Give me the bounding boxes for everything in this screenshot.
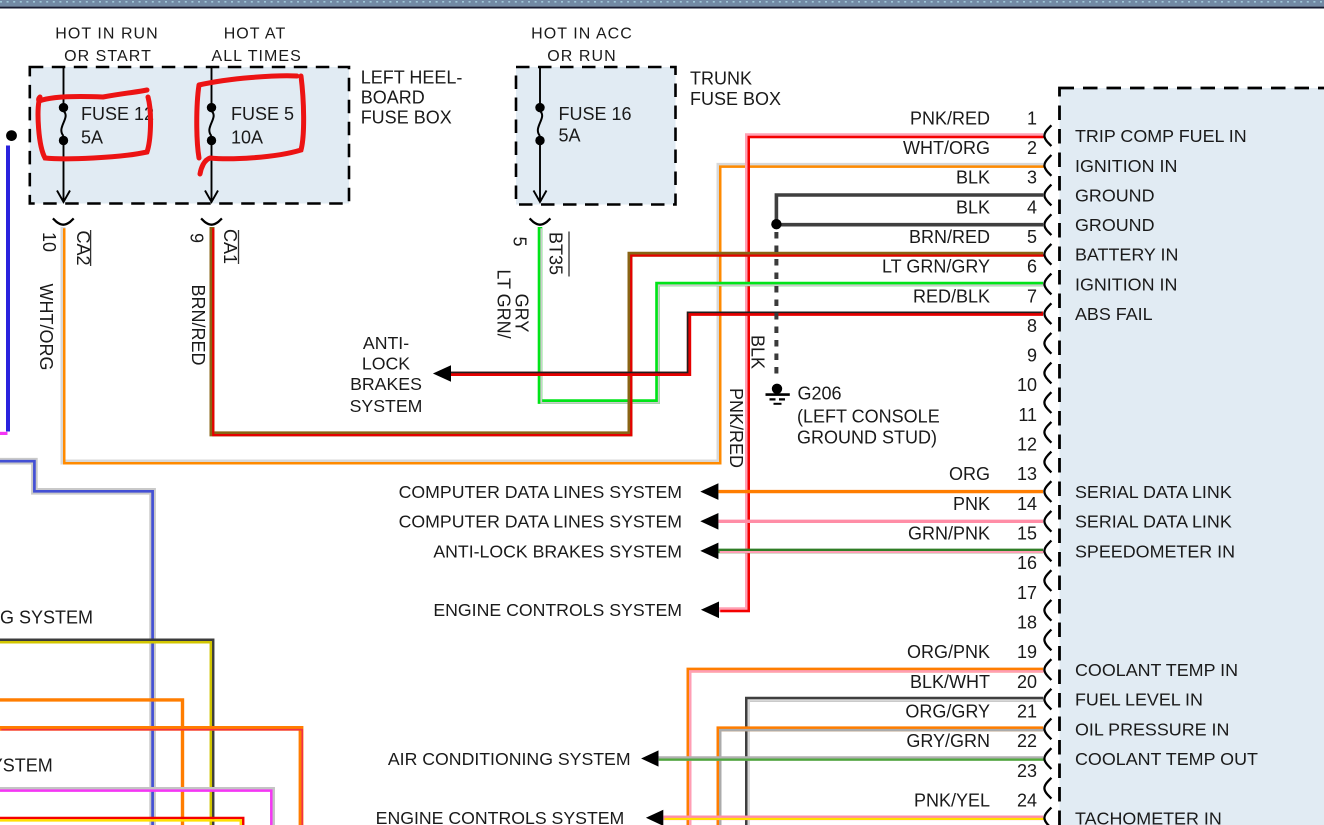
connector pin 16 row [1017,553,1051,591]
svg-text:BRN/RED: BRN/RED [909,227,990,247]
svg-text:17: 17 [1017,583,1037,603]
svg-text:COOLANT TEMP IN: COOLANT TEMP IN [1075,660,1238,680]
svg-text:9: 9 [186,233,206,243]
wire ORG/PNK to pin 19 [689,670,1044,825]
svg-text:LOCK: LOCK [362,354,410,374]
svg-text:WHT/ORG: WHT/ORG [36,284,56,371]
svg-text:23: 23 [1017,761,1037,781]
instrument cluster connector box (dashed, lt-blue) [1060,88,1324,825]
svg-text:BLK: BLK [956,197,990,217]
svg-text:PNK: PNK [953,494,990,514]
wire label WHT/ORG (rotated) [36,284,56,371]
wire RED/YEL (bottom left) [0,818,243,825]
svg-text:PNK/RED: PNK/RED [910,108,990,128]
svg-text:GRY: GRY [512,294,532,333]
svg-text:ORG/PNK: ORG/PNK [907,642,990,662]
wire BLK/WHT to pin 20 [748,699,1045,825]
svg-text:8: 8 [1027,316,1037,336]
arrow to COMPUTER DATA LINES SYSTEM (2) [700,513,718,530]
connector bracket under FUSE 16 [530,218,551,224]
svg-text:BRN/RED: BRN/RED [188,284,208,365]
svg-text:13: 13 [1017,464,1037,484]
connector pin 12 row [1017,435,1051,473]
svg-text:SYSTEM: SYSTEM [0,755,53,775]
svg-text:CA1: CA1 [220,229,240,264]
svg-text:22: 22 [1017,731,1037,751]
svg-text:FUSE BOX: FUSE BOX [361,108,452,128]
connector BT35 (rotated, underlined) [546,232,570,277]
wire GRN/PNK to pin 15 [718,551,1044,552]
label FUSE 5 10A [231,104,294,148]
svg-text:BT35: BT35 [546,232,566,275]
svg-text:BRAKES: BRAKES [350,374,422,394]
svg-text:HOT AT: HOT AT [224,26,287,43]
connector pin 21 row [905,702,1229,740]
wire ORG (bottom left 1) [0,700,183,825]
wire PNK/RED from ENGINE CONTROLS SYSTEM to pin 1 [719,136,1044,611]
svg-text:9: 9 [1027,346,1037,366]
svg-text:WHT/ORG: WHT/ORG [903,138,990,158]
svg-text:14: 14 [1017,494,1037,514]
svg-text:COMPUTER DATA LINES SYSTEM: COMPUTER DATA LINES SYSTEM [399,482,682,502]
left heel-board fuse box (dashed, lt-blue) [30,67,349,204]
svg-text:HOT IN RUN: HOT IN RUN [55,26,159,43]
svg-text:20: 20 [1017,672,1037,692]
svg-text:PNK/YEL: PNK/YEL [914,791,990,811]
red annotation circle around FUSE 5 [197,76,304,174]
label FUSE 16 5A [559,104,632,146]
svg-text:ENGINE CONTROLS SYSTEM: ENGINE CONTROLS SYSTEM [433,600,682,620]
label G SYSTEM (truncated) [0,608,93,628]
connector pin 23 row [1017,761,1051,799]
connector pin 2 row [903,138,1177,176]
svg-text:BLK/WHT: BLK/WHT [910,672,990,692]
label ENGINE CONTROLS SYSTEM (bottom) [376,808,625,825]
svg-text:COMPUTER DATA LINES SYSTEM: COMPUTER DATA LINES SYSTEM [399,512,682,532]
wire BLK dashed to ground G206 [774,232,778,374]
fuse FUSE 16 5A symbol [534,67,547,202]
svg-text:11: 11 [1018,405,1037,425]
svg-text:3: 3 [1027,168,1037,188]
connector pin 13 row [949,464,1232,502]
pin number 9 (rotated) [186,233,206,243]
connector CA2 (rotated, underlined) [73,230,93,266]
svg-text:BLK: BLK [956,168,990,188]
svg-text:AIR CONDITIONING SYSTEM: AIR CONDITIONING SYSTEM [388,749,631,769]
label ENGINE CONTROLS SYSTEM (upper) [433,600,682,620]
label G206 (LEFT CONSOLE GROUND STUD) [797,383,940,447]
connector pin 7 row [913,286,1153,324]
svg-text:ALL TIMES: ALL TIMES [212,48,302,65]
wire label BRN/RED (rotated) [188,284,208,365]
svg-text:5A: 5A [81,128,103,148]
svg-text:12: 12 [1017,435,1037,455]
svg-text:5: 5 [509,236,529,246]
svg-text:4: 4 [1027,197,1037,217]
connector pin 20 row [910,672,1203,710]
wire RED/BLK from ANTI-LOCK BRAKES SYSTEM to pin 7 [448,312,1043,374]
connector pin 24 row [914,791,1222,825]
wire BLK pin 3 to junction [776,195,1043,222]
svg-text:5A: 5A [559,125,581,145]
svg-text:6: 6 [1027,257,1037,277]
connector CA1 (rotated, underlined) [220,229,240,264]
connector pin 8 row [1027,316,1051,354]
svg-text:1: 1 [1027,108,1037,128]
svg-text:OR START: OR START [64,48,152,65]
svg-text:COOLANT TEMP OUT: COOLANT TEMP OUT [1075,749,1258,769]
svg-text:ENGINE CONTROLS SYSTEM: ENGINE CONTROLS SYSTEM [376,808,625,825]
connector pin 3 row [956,168,1155,206]
wire WHT/ORG from CA2 to pin 2 [63,165,1044,463]
svg-text:FUSE 12: FUSE 12 [81,104,154,124]
wire ORG/GRY to pin 21 [719,729,1044,825]
label COMPUTER DATA LINES SYSTEM (2) [399,512,682,532]
svg-text:SYSTEM: SYSTEM [350,396,423,416]
wire BLK/YEL (bottom left) [0,640,213,825]
label HOT AT ALL TIMES [212,26,302,66]
svg-text:TRUNK: TRUNK [690,69,752,89]
svg-text:TACHOMETER IN: TACHOMETER IN [1075,808,1222,825]
svg-text:GROUND: GROUND [1075,215,1155,235]
svg-text:FUSE 16: FUSE 16 [559,104,632,124]
svg-text:HOT IN ACC: HOT IN ACC [531,26,633,43]
fuse FUSE 5 10A symbol [205,67,218,202]
label TRUNK FUSE BOX [690,69,781,110]
wire label LT GRN/ (rotated) [494,269,514,338]
connector pin 17 row [1017,583,1051,621]
svg-text:10: 10 [39,232,59,252]
arrow to ENGINE CONTROLS SYSTEM (upper) [701,602,719,619]
label HOT IN ACC OR RUN [531,26,633,66]
junction dot BLK [771,219,781,229]
svg-text:10: 10 [1017,375,1037,395]
svg-text:ANTI-: ANTI- [363,333,409,353]
connector pin 6 row [882,257,1177,295]
wire ORG to pin 13 [718,490,1043,493]
svg-text:21: 21 [1017,702,1037,722]
svg-text:16: 16 [1017,553,1037,573]
svg-text:IGNITION IN: IGNITION IN [1075,274,1177,294]
connector bracket under FUSE 12 [53,218,74,224]
svg-text:GROUND STUD): GROUND STUD) [797,428,937,448]
label FUSE 12 5A [81,104,154,148]
connector pin 9 row [1027,346,1051,384]
wire magenta stub tip [0,432,8,435]
arrow to AIR CONDITIONING SYSTEM [641,750,658,766]
svg-text:RED/BLK: RED/BLK [913,286,990,306]
svg-text:FUSE BOX: FUSE BOX [690,89,781,109]
connector pin 1 row [910,108,1247,146]
svg-text:TRIP COMP FUEL IN: TRIP COMP FUEL IN [1075,126,1247,146]
fuse FUSE 12 5A symbol [57,67,70,202]
svg-text:PNK/RED: PNK/RED [726,388,746,468]
trunk fuse box (dashed, lt-blue) [516,67,676,205]
svg-text:SPEEDOMETER IN: SPEEDOMETER IN [1075,541,1235,561]
svg-text:FUEL LEVEL IN: FUEL LEVEL IN [1075,690,1203,710]
svg-text:24: 24 [1017,791,1037,811]
svg-text:ABS FAIL: ABS FAIL [1075,304,1153,324]
svg-text:SERIAL DATA LINK: SERIAL DATA LINK [1075,482,1232,502]
wire label PNK/RED (rotated) [726,388,746,468]
svg-text:2: 2 [1027,138,1037,158]
wire ORG/RED (bottom left 2) [0,728,302,825]
svg-text:ORG/GRY: ORG/GRY [905,702,990,722]
label COMPUTER DATA LINES SYSTEM (1) [399,482,682,502]
connector pin 19 row [907,642,1238,680]
arrow to ANTI-LOCK BRAKES SYSTEM (row) [700,543,718,560]
svg-text:FUSE 5: FUSE 5 [231,104,294,124]
svg-text:15: 15 [1017,524,1037,544]
label ANTI-LOCK BRAKES SYSTEM (row) [433,541,682,561]
svg-text:(LEFT CONSOLE: (LEFT CONSOLE [797,407,940,427]
svg-text:ANTI-LOCK BRAKES SYSTEM: ANTI-LOCK BRAKES SYSTEM [433,541,682,561]
pin number 10 (rotated) [39,232,59,252]
wire BLU stub (left edge) [6,146,10,432]
svg-text:GRN/PNK: GRN/PNK [908,524,990,544]
red annotation circle around FUSE 12 [38,90,150,159]
connector pin 4 row [956,197,1155,235]
wire label GRY (rotated) [512,294,532,333]
wire LT GRN/GRY from BT35 to pin 6 [540,227,1044,403]
arrow to ANTI-LOCK BRAKES SYSTEM [433,365,451,382]
svg-text:OR RUN: OR RUN [547,48,616,65]
svg-text:BATTERY IN: BATTERY IN [1075,245,1178,265]
label HOT IN RUN OR START [55,26,159,66]
svg-text:SERIAL DATA LINK: SERIAL DATA LINK [1075,512,1232,532]
svg-text:OIL PRESSURE IN: OIL PRESSURE IN [1075,719,1229,739]
label ANTI-LOCK BRAKES SYSTEM (4 lines) [350,333,423,416]
connector pin 5 row [909,227,1178,265]
svg-text:GROUND: GROUND [1075,185,1155,205]
svg-text:BOARD: BOARD [361,88,425,108]
svg-text:5: 5 [1027,227,1037,247]
wire GRY/GRN to pin 22 [658,759,1044,760]
wire BRN/RED from CA1 to pin 5 [212,227,1044,435]
pin number 5 (rotated) [509,236,529,246]
svg-text:IGNITION IN: IGNITION IN [1075,156,1177,176]
label YSTEM (truncated) [0,755,53,775]
arrow to ENGINE CONTROLS SYSTEM (bottom) [646,810,663,825]
connector pin 18 row [1017,613,1051,651]
connector pin 11 row [1018,405,1051,443]
wire BLU/WHT stepped (left edge to bottom) [0,461,153,825]
svg-text:BLK: BLK [748,335,768,369]
svg-text:LT GRN/: LT GRN/ [494,269,514,338]
svg-text:LEFT HEEL-: LEFT HEEL- [361,68,463,88]
label AIR CONDITIONING SYSTEM [388,749,631,769]
connector pin 22 row [906,731,1258,769]
wire PNK/YEL to pin 24 [663,818,1044,819]
wire BLK pin 4 from junction [776,223,1043,227]
svg-text:18: 18 [1017,613,1037,633]
svg-text:7: 7 [1027,286,1037,306]
wire label BLK (rotated) [748,335,768,369]
window top bar [0,0,1324,9]
ground symbol G206 [766,384,790,404]
svg-text:ORG: ORG [949,464,990,484]
svg-text:G SYSTEM: G SYSTEM [0,608,93,628]
junction dot top-left [6,130,17,141]
connector pin 14 row [953,494,1232,532]
svg-text:10A: 10A [231,128,263,148]
svg-text:19: 19 [1017,642,1037,662]
wire GRY/MAG (bottom left) [0,788,274,825]
arrow to COMPUTER DATA LINES SYSTEM (1) [700,483,718,500]
svg-text:GRY/GRN: GRY/GRN [906,731,990,751]
svg-text:G206: G206 [798,383,842,403]
connector pin 10 row [1017,375,1051,413]
connector pin 15 row [908,524,1235,562]
svg-text:LT GRN/GRY: LT GRN/GRY [882,257,990,277]
label LEFT HEEL-BOARD FUSE BOX [361,68,463,128]
wire PNK to pin 14 [718,520,1043,523]
connector bracket under FUSE 5 [201,218,222,224]
